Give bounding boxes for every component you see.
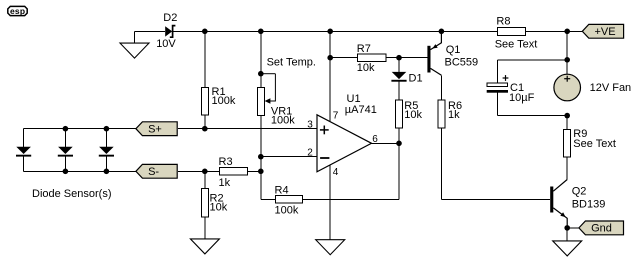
node pin2/VR1 column: [258, 154, 264, 160]
svg-text:4: 4: [333, 167, 339, 178]
node pin7 top: [327, 29, 333, 35]
svg-text:Gnd: Gnd: [591, 223, 612, 235]
resistor R7: [330, 43, 427, 74]
svg-text:3: 3: [307, 120, 313, 131]
svg-text:R8: R8: [496, 16, 510, 28]
tag +VE: [582, 24, 623, 38]
svg-text:10µF: 10µF: [509, 92, 535, 104]
ground (D2 anode): [120, 31, 165, 58]
resistor R8: [495, 16, 538, 51]
node R1 top: [202, 29, 208, 35]
ground (R2): [190, 239, 219, 254]
trimpot VR1: [257, 31, 295, 199]
svg-text:See Text: See Text: [495, 39, 538, 51]
motor 12V Fan: [554, 74, 631, 101]
capacitor C1: [487, 75, 568, 116]
esp logo: [8, 6, 27, 16]
pin 2 label: [307, 148, 313, 159]
svg-text:BC559: BC559: [445, 56, 479, 68]
svg-text:6: 6: [372, 134, 378, 145]
svg-text:D1: D1: [409, 73, 423, 85]
label Diode Sensor(s): [32, 188, 111, 200]
svg-text:100k: 100k: [271, 114, 295, 126]
diode D1: [391, 58, 422, 100]
svg-text:100k: 100k: [212, 95, 236, 107]
resistor R5: [396, 100, 423, 143]
zener D2: [156, 12, 177, 50]
svg-text:µA741: µA741: [345, 104, 377, 116]
sensor diode Dc: [99, 129, 114, 172]
resistor R4: [261, 143, 399, 216]
svg-text:Q2: Q2: [572, 186, 587, 198]
svg-text:+VE: +VE: [595, 26, 616, 38]
node Dc bottom: [104, 169, 110, 175]
resistor R2: [201, 171, 227, 239]
transistor Q1: [427, 31, 478, 75]
pin 6 wire: [372, 134, 400, 145]
tag Gnd: [579, 221, 624, 235]
sensor diode Da: [16, 129, 31, 172]
svg-text:2: 2: [307, 148, 313, 159]
svg-text:1k: 1k: [448, 109, 460, 121]
svg-text:10k: 10k: [404, 109, 422, 121]
svg-text:10k: 10k: [357, 62, 375, 74]
ground (pin 4): [316, 240, 345, 255]
node R1/S+: [202, 126, 208, 132]
resistor R1: [201, 31, 236, 128]
op-amp U1: [317, 93, 377, 172]
transistor Q2: [550, 180, 605, 228]
wire top rail: [173, 30, 583, 32]
pin 7: [330, 31, 339, 122]
tag S-: [136, 164, 177, 178]
resistor R9: [564, 116, 616, 180]
node R7/D1/Q1 base: [396, 55, 402, 61]
node Q1 emitter top: [439, 29, 445, 35]
svg-text:7: 7: [333, 110, 339, 121]
svg-text:S-: S-: [148, 166, 159, 178]
wire pin2: [261, 156, 317, 158]
wire S+ rail: [24, 128, 317, 130]
svg-text:1k: 1k: [219, 177, 231, 189]
svg-text:R3: R3: [219, 156, 233, 168]
node Dc top: [104, 126, 110, 132]
svg-text:Diode Sensor(s): Diode Sensor(s): [32, 188, 111, 200]
svg-text:10k: 10k: [210, 201, 228, 213]
label Set Temp.: [267, 57, 316, 69]
pin 3 label: [307, 120, 313, 131]
svg-text:esp: esp: [10, 6, 25, 16]
node VR1 top: [258, 29, 264, 35]
node VR1 wiper: [258, 71, 264, 77]
node +VE branch: [564, 29, 570, 35]
sensor diode Db: [58, 129, 73, 172]
svg-text:10V: 10V: [156, 38, 176, 50]
svg-text:12V Fan: 12V Fan: [590, 82, 632, 94]
wire S- rail: [24, 170, 261, 172]
svg-text:100k: 100k: [275, 205, 299, 217]
node R7 left: [327, 55, 333, 61]
node output/R5/R4: [396, 141, 402, 147]
pin 4: [330, 165, 339, 240]
svg-text:Set Temp.: Set Temp.: [267, 57, 316, 69]
svg-text:BD139: BD139: [572, 199, 606, 211]
wire Gnd tag: [567, 227, 579, 229]
node R3/pin2 column: [258, 169, 264, 175]
wire C1 top: [497, 31, 567, 83]
node C1 top: [564, 57, 570, 63]
svg-text:Q1: Q1: [446, 44, 461, 56]
svg-text:S+: S+: [148, 124, 162, 136]
svg-text:R7: R7: [357, 43, 371, 55]
svg-text:See Text: See Text: [573, 138, 616, 150]
tag S+: [136, 122, 177, 136]
ground (Q2): [553, 228, 582, 256]
svg-text:R4: R4: [275, 184, 289, 196]
node Db top: [63, 126, 69, 132]
resistor R6: [438, 75, 550, 199]
node C1 bottom: [564, 113, 570, 119]
node Db bottom: [63, 169, 69, 175]
node Q2 emitter: [564, 225, 570, 231]
node R3/R2: [202, 169, 208, 175]
svg-text:D2: D2: [163, 12, 177, 24]
resistor R3: [219, 156, 248, 189]
